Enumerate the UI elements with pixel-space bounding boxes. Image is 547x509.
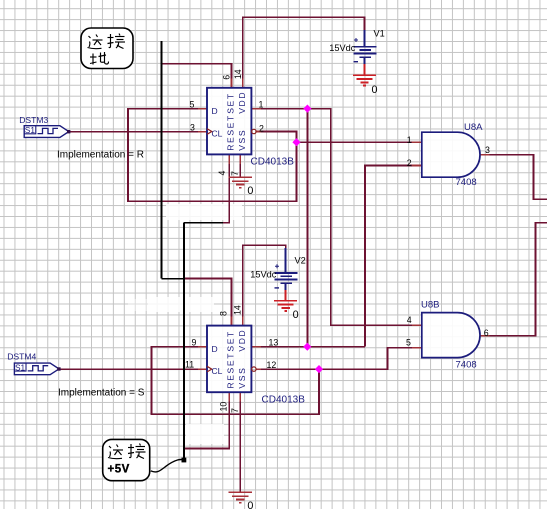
svg-text:7: 7 <box>230 408 240 413</box>
svg-text:DSTM4: DSTM4 <box>7 352 36 362</box>
svg-text:RESET: RESET <box>225 352 235 389</box>
wire Q1bar: pin2 to corner, down to junction, to U8A pin1 <box>256 132 296 143</box>
wire U8A output pin3 to right edge <box>480 155 547 200</box>
svg-text:7: 7 <box>230 171 240 176</box>
annotation pointer squiggle to +5V bubble <box>151 459 184 471</box>
wire U8B output pin6 up to right edge <box>480 223 547 336</box>
svg-text:CD4013B: CD4013B <box>262 395 306 406</box>
svg-text:V1: V1 <box>374 29 385 39</box>
svg-text:CD4013B: CD4013B <box>251 157 295 168</box>
svg-text:15Vdc: 15Vdc <box>329 43 355 53</box>
pin tip square DSTM4 <box>57 367 60 370</box>
svg-text:2: 2 <box>407 158 412 168</box>
pin tip square DSTM3 <box>67 130 70 133</box>
red pin stubs overlay <box>198 79 490 402</box>
plus marker V2 <box>275 264 279 268</box>
wire D1 feedback: FF1 pin5 left, down, right, up to Qbar net <box>128 109 297 202</box>
wire Q2bar pin12 to U8B pin5 <box>256 348 422 369</box>
wire VSS1 pin7 down to ground <box>239 154 241 177</box>
svg-text:3: 3 <box>485 145 490 155</box>
svg-text:6: 6 <box>484 328 489 338</box>
op-amp U8A body <box>422 132 480 177</box>
Qbar bubble FF2 pin12 <box>252 367 256 371</box>
svg-text:11: 11 <box>185 360 194 370</box>
wire DSTM3 output to FF1 CLK pin3 <box>69 131 207 133</box>
annotation line vertical segment (bottom, x=184) <box>183 223 185 460</box>
svg-text:V2: V2 <box>295 256 306 266</box>
clock wedge FF2 <box>207 366 212 372</box>
svg-text:2: 2 <box>259 123 264 133</box>
svg-text:10: 10 <box>219 402 229 412</box>
wire VDD1 pin14 up and right to V1 <box>243 17 365 88</box>
svg-text:15Vdc: 15Vdc <box>250 270 276 280</box>
stimulus DSTM3 tag body <box>24 126 69 138</box>
svg-text:1: 1 <box>259 100 264 110</box>
wire VSS2 pin7 down to ground <box>239 392 241 492</box>
svg-text:S1: S1 <box>25 125 36 135</box>
svg-text:6: 6 <box>222 75 232 80</box>
svg-text:8: 8 <box>219 311 229 316</box>
svg-text:RESET: RESET <box>225 114 235 151</box>
svg-text:0: 0 <box>247 185 253 197</box>
svg-text:4: 4 <box>217 171 227 176</box>
svg-text:Implementation = S: Implementation = S <box>58 388 145 399</box>
waveform glyph DSTM3 <box>38 128 59 133</box>
wire RESET1 pin4 down and left <box>222 154 229 222</box>
wire Q1: pin1 right, corner down to U8B pin4 <box>251 109 421 326</box>
svg-text:0: 0 <box>372 84 378 96</box>
svg-text:U8B: U8B <box>421 299 439 310</box>
battery V1 pins <box>354 30 377 64</box>
svg-text:SET: SET <box>225 330 235 352</box>
wire Q1-Q2 tie vertical <box>306 109 308 347</box>
svg-text:7408: 7408 <box>456 360 477 371</box>
wire SET2 pin8 up and left <box>184 279 231 326</box>
glyph 接 (bubble2 char2) <box>128 444 146 459</box>
battery V2 pins <box>275 248 298 290</box>
svg-text:14: 14 <box>233 305 243 315</box>
svg-text:DSTM3: DSTM3 <box>19 115 48 125</box>
svg-text:U8A: U8A <box>464 122 483 133</box>
gate U8B body <box>422 313 480 358</box>
svg-text:5: 5 <box>190 100 195 110</box>
junction dot J2 Q1bar net <box>292 138 300 146</box>
stimulus DSTM4 tag body <box>14 363 59 375</box>
svg-text:12: 12 <box>267 360 277 370</box>
junction dot J3 Q2 net <box>303 343 311 351</box>
ground 0 under V2 (red) <box>274 290 297 311</box>
svg-text:SET: SET <box>225 92 235 114</box>
plus marker V1 <box>354 38 358 42</box>
flip-flop body FF1 <box>190 69 295 176</box>
glyph 地 (bubble1 line2) <box>90 52 109 65</box>
flip-flop body FF2 <box>185 305 305 413</box>
minus marker V1 <box>354 61 359 63</box>
svg-text:S1: S1 <box>15 363 26 373</box>
svg-text:14: 14 <box>233 69 243 79</box>
svg-text:D: D <box>212 344 218 354</box>
annotation line jog horizontal <box>162 278 185 280</box>
svg-text:13: 13 <box>269 338 279 348</box>
svg-text:5: 5 <box>406 337 411 347</box>
wire Q2 pin13 <box>251 346 365 348</box>
svg-text:VDD: VDD <box>237 329 247 352</box>
svg-text:7408: 7408 <box>456 177 477 188</box>
svg-text:CL: CL <box>212 128 223 138</box>
annotation endpoint dot <box>182 458 187 463</box>
svg-text:3: 3 <box>190 123 195 133</box>
junction dot J4 Q2bar net <box>315 365 323 373</box>
Qbar bubble FF1 pin2 <box>252 129 256 133</box>
waveform glyph DSTM4 <box>28 366 49 371</box>
bubble 2 body <box>103 439 150 480</box>
ground 0 under FF1 pin7 (dark red) <box>229 177 254 197</box>
wire U8A pin2 from Q2 net <box>365 165 422 346</box>
glyph 这 (bubble2 char1) <box>108 445 123 459</box>
ground 0 under V1 (red) <box>353 64 376 86</box>
svg-text:4: 4 <box>407 315 412 325</box>
svg-text:9: 9 <box>192 338 197 348</box>
battery V2 plates <box>275 272 298 274</box>
wire SET1 pin6 up and left to annotation line <box>162 64 232 88</box>
svg-text:0: 0 <box>247 500 253 509</box>
svg-text:D: D <box>212 106 218 116</box>
svg-text:VSS: VSS <box>237 367 247 389</box>
battery V1 plates <box>354 46 377 48</box>
wire Q2bar feedback to D2 pin9 <box>152 347 320 415</box>
svg-text:1: 1 <box>407 135 412 145</box>
svg-text:+5V: +5V <box>108 463 130 475</box>
glyph 接 (bubble1 line1 char2) <box>108 34 126 49</box>
S1 cell divider DSTM3 <box>24 126 36 134</box>
svg-text:VSS: VSS <box>237 129 247 151</box>
S1 cell divider DSTM4 <box>14 363 26 371</box>
junction dot J1 Q1 net <box>303 104 311 112</box>
annotation line vertical segment (top, x=161.5) <box>161 41 163 279</box>
minus marker V2 <box>275 287 280 289</box>
svg-text:0: 0 <box>293 309 299 321</box>
svg-text:VDD: VDD <box>237 91 247 114</box>
annotation overdraw on RESET1 wire <box>184 222 223 224</box>
bubble 1 body <box>81 28 133 69</box>
wire VDD2 pin14 up and right to V2 <box>243 245 286 325</box>
watermark smudge patches <box>128 204 242 444</box>
wire RESET2 pin10 down and left <box>184 392 229 448</box>
clock wedge FF1 <box>207 129 212 135</box>
wire DSTM4 output to FF2 CLK pin11 <box>59 368 207 370</box>
glyph 这 (bubble1 line1 char1) <box>88 35 103 49</box>
ground 0 under FF2 pin7 (dark red) <box>229 492 254 509</box>
svg-text:Implementation = R: Implementation = R <box>57 150 144 161</box>
svg-text:CL: CL <box>212 366 223 376</box>
